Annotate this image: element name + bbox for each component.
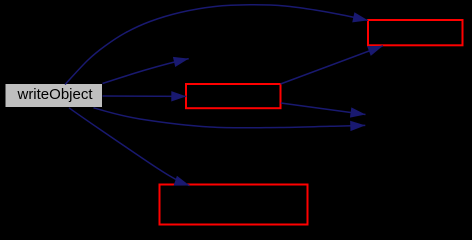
node: top-right red (truncated) <box>368 20 463 45</box>
wire: writeObject -> middle red node <box>103 95 187 97</box>
wire: writeObject -> hidden right node (long lower curve) <box>94 108 366 128</box>
wire: writeObject -> hidden upper node <box>103 59 189 84</box>
node writeObject (current node, grey) <box>6 84 103 107</box>
wire: writeObject -> top-right node (long top arc) <box>65 5 368 85</box>
svg-text:writeObject: writeObject <box>16 86 93 103</box>
wire: middle red node -> top-right node <box>281 46 384 84</box>
node: bottom red (truncated) <box>160 185 308 225</box>
wire: writeObject -> bottom red node <box>69 108 190 186</box>
wire: middle red node -> hidden right node <box>281 103 366 115</box>
node: middle red (truncated) <box>186 84 281 108</box>
